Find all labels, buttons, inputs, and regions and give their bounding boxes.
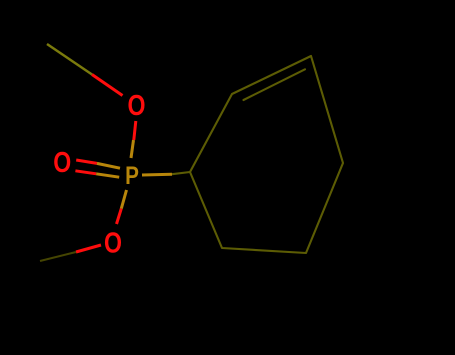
svg-text:P: P bbox=[125, 162, 139, 190]
svg-text:O: O bbox=[128, 90, 146, 122]
svg-text:O: O bbox=[104, 227, 122, 259]
svg-text:O: O bbox=[53, 147, 71, 179]
